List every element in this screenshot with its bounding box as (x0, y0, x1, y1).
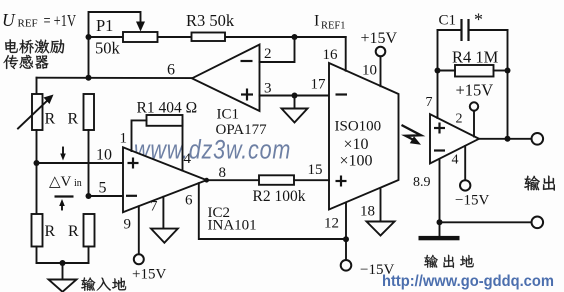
wire output (479, 138, 532, 140)
svg-text:6: 6 (185, 193, 193, 209)
isolation amp ISO100 (329, 63, 399, 210)
node junction pin2 rail (292, 34, 298, 40)
svg-text:R4 1M: R4 1M (452, 48, 499, 67)
IC2 output pin 8 and resistor R2 100k (207, 179, 259, 181)
IC2 pin 7 ground (162, 197, 164, 229)
svg-text:×10: ×10 (344, 136, 369, 153)
op-amp IC1 OPA177 (192, 45, 260, 112)
svg-text:OPA177: OPA177 (216, 122, 268, 138)
ISO100 pin 18 ground (380, 189, 382, 221)
output op-amp (430, 114, 479, 163)
svg-text:C1: C1 (439, 13, 457, 29)
svg-text:R: R (68, 223, 79, 240)
svg-text:9: 9 (124, 217, 132, 233)
ground at IC1 pin 3 (294, 96, 296, 109)
svg-text:10: 10 (96, 147, 112, 164)
svg-text:in: in (74, 178, 82, 189)
svg-text:8: 8 (219, 165, 227, 181)
label input ground (81, 277, 126, 290)
svg-text:http://www.go-gddq.com: http://www.go-gddq.com (382, 273, 554, 290)
node bridge right mid (86, 193, 92, 199)
instrumentation amp IC2 INA101 (123, 147, 207, 212)
svg-text:P1: P1 (96, 16, 113, 35)
svg-text:−15V: −15V (455, 193, 489, 209)
IC2 pin 6 to -15V rail (199, 183, 346, 239)
wire bridge bottom (37, 262, 89, 264)
label dianqiao jili (bridge excitation) (5, 39, 64, 53)
chassis ground bar (419, 236, 460, 240)
svg-text:R3 50k: R3 50k (186, 11, 235, 30)
output amp pin 4 -15V (464, 146, 466, 180)
feedback left vertical (437, 30, 439, 118)
label output ground (424, 255, 473, 268)
svg-text:15: 15 (308, 162, 323, 178)
wire bridge top to IC1 output pin 6 (37, 77, 193, 79)
label output (524, 176, 555, 191)
svg-text:10: 10 (362, 63, 377, 79)
svg-text:*: * (474, 10, 483, 30)
svg-text:4: 4 (184, 151, 192, 167)
svg-text:12: 12 (324, 216, 339, 232)
output amp pins 8,9 to output ground (439, 159, 441, 236)
resistor R (bridge upper-right) (84, 94, 95, 130)
variable resistor R (bridge upper-left) (36, 78, 38, 94)
ISO100 pin 12 to -15V (345, 203, 347, 260)
svg-text:1: 1 (120, 131, 128, 147)
svg-text:+15V: +15V (456, 81, 494, 100)
svg-text:INA101: INA101 (208, 218, 257, 234)
svg-text:R2 100k: R2 100k (253, 188, 306, 205)
input ground symbol (49, 280, 77, 292)
svg-text:U: U (2, 10, 16, 30)
svg-text:5: 5 (99, 180, 107, 197)
svg-text:R: R (45, 223, 56, 240)
svg-text:6: 6 (167, 62, 175, 79)
node bridge left mid (34, 160, 40, 166)
svg-text:2: 2 (264, 46, 272, 62)
polarity arrow down (62, 148, 64, 156)
resistor R (bridge lower-right) (84, 214, 95, 247)
resistor R3 body (192, 33, 226, 42)
P1 wiper wire (89, 12, 141, 37)
svg-text:×100: ×100 (340, 153, 373, 170)
svg-text:+15V: +15V (361, 30, 398, 47)
svg-text:50k: 50k (95, 39, 121, 58)
polarity arrow up (61, 204, 63, 210)
wire ISO100 pin 16 drop (345, 37, 347, 71)
wire to input ground (62, 263, 64, 280)
svg-text:IC1: IC1 (217, 107, 240, 123)
svg-text:3: 3 (264, 81, 272, 97)
feedback right vertical (507, 30, 509, 139)
svg-text:R: R (45, 111, 56, 128)
svg-text:R1 404 Ω: R1 404 Ω (137, 100, 198, 117)
svg-text:7: 7 (426, 95, 433, 110)
svg-text:R: R (68, 111, 79, 128)
P1 wiper arrowhead (136, 22, 145, 32)
wire output ground rail (440, 221, 532, 223)
wire +input (pin 10) (37, 162, 124, 164)
optical coupling arrow (402, 125, 422, 139)
resistor R (bridge lower-left) (32, 214, 43, 247)
svg-text:2: 2 (456, 112, 463, 127)
wire left vertical to bridge top (88, 37, 90, 78)
label chuanganqi (sensor) (4, 55, 49, 69)
wire IC1 pin 2 (260, 37, 295, 62)
IC2 pin 9 +15V (138, 206, 140, 254)
svg-text:= +1V: = +1V (44, 11, 77, 30)
svg-text:ISO100: ISO100 (335, 119, 382, 135)
wire IC1 pin 3 to ISO pin 17 (260, 95, 330, 97)
polarity dash (55, 195, 74, 197)
wire -input (pin 5) (89, 195, 124, 197)
svg-text:I: I (314, 13, 319, 30)
svg-text:18: 18 (360, 204, 375, 220)
svg-text:REF: REF (18, 18, 38, 30)
svg-text:16: 16 (323, 47, 339, 63)
svg-text:△V: △V (49, 174, 72, 190)
svg-text:−15V: −15V (360, 262, 394, 278)
svg-text:8.9: 8.9 (413, 175, 431, 190)
node bridge top (86, 75, 92, 81)
svg-text:7: 7 (150, 199, 158, 215)
wire top rail (89, 36, 124, 38)
svg-text:+15V: +15V (132, 267, 166, 283)
node junction top-left (86, 34, 92, 40)
svg-text:REF1: REF1 (321, 21, 346, 32)
svg-text:4: 4 (452, 153, 459, 168)
svg-text:17: 17 (311, 77, 327, 93)
potentiometer P1 body (123, 32, 158, 42)
